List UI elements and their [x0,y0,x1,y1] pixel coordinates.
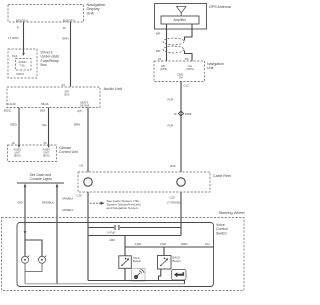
back bottom wire [159,269,161,281]
svg-text:SH: SH [179,76,183,80]
svg-text:RED/BLK: RED/BLK [42,201,54,205]
back drop [163,247,165,256]
inline connector ellipse 1 [163,38,184,45]
GPS antenna box [155,4,207,30]
svg-text:LT GRN: LT GRN [8,36,19,40]
svg-text:Button: Button [133,259,142,263]
GPS coax center wire [166,24,168,61]
svg-text:SB SNK: SB SNK [80,103,90,107]
svg-text:(BUS): (BUS) [43,154,50,157]
wire LT GRN/BLK from cable reel down [180,192,182,236]
lower branch [88,235,181,237]
svg-text:F12: F12 [12,54,18,58]
svg-text:Amplifier: Amplifier [174,18,187,22]
navigation unit box [154,61,205,82]
svg-text:Unit: Unit [207,66,213,70]
svg-text:PUR: PUR [168,124,174,128]
switch common bus [88,281,185,284]
svg-text:7.5A: 7.5A [20,64,25,67]
svg-text:YEL: YEL [42,123,48,127]
svg-text:C12: C12 [184,83,190,87]
svg-text:LT GRN/BLK: LT GRN/BLK [167,201,182,205]
svg-text:Audio Unit: Audio Unit [104,86,123,91]
svg-text:Switch: Switch [216,231,227,235]
svg-text:16: 16 [63,26,67,30]
wire BRN audio to cable reel [87,108,89,173]
inline connector D606 diamond [178,111,183,116]
svg-text:C20: C20 [170,196,176,200]
climate control unit box [8,145,57,162]
voice control switch box [17,223,214,287]
capacitor branch [88,227,114,229]
steering wheel outer dashed box [2,218,245,291]
svg-text:Unit: Unit [87,10,95,15]
svg-text:CLR-A6: CLR-A6 [7,102,17,106]
svg-text:GRN/BLK: GRN/BLK [62,208,74,212]
cable reel loop right [177,178,185,186]
lamp return wiring [25,263,42,284]
svg-text:GRN: GRN [62,36,69,40]
mic icon box [132,269,146,282]
amplifier box [161,16,199,24]
TALK button box [119,256,132,268]
cable reel loop left [84,178,92,186]
wire RED/BLK with up arrow [56,184,59,188]
inline connector ellipse 2 [163,46,184,53]
svg-text:B23(GRY): B23(GRY) [16,19,28,23]
talk drop [124,236,126,256]
illumination lamp 1 [22,256,29,263]
svg-text:B10: B10 [171,164,176,168]
bracket line [17,182,64,184]
svg-text:D6: D6 [80,164,84,168]
svg-text:25: 25 [44,141,48,145]
svg-text:Box: Box [41,63,47,67]
wire LT GRN from nav display to fuse box [23,22,25,53]
svg-text:B/R: B/R [156,49,160,53]
cable reel box [78,172,210,192]
illumination lamp 2 [39,256,46,263]
svg-text:C16: C16 [77,194,83,198]
svg-text:BRN: BRN [74,123,80,127]
svg-text:Button: Button [173,259,182,263]
svg-text:PUR: PUR [168,98,174,102]
BACK button box [158,256,172,270]
svg-text:10: 10 [174,112,178,116]
svg-text:2.2kΩ: 2.2kΩ [135,242,142,246]
svg-text:GPS Antenna: GPS Antenna [209,5,231,9]
svg-text:D606: D606 [185,112,192,116]
svg-text:P1: P1 [158,57,162,61]
return icon box [172,270,187,281]
svg-text:and Navigation System: and Navigation System [107,206,139,210]
svg-text:B20: B20 [40,108,45,112]
resistor bus [125,246,214,248]
wire RED audio to climate [18,108,20,145]
svg-text:0.47µF: 0.47µF [107,231,116,235]
svg-text:GRY: GRY [18,201,24,205]
svg-text:470Ω: 470Ω [160,242,166,246]
wire GRY with up arrow [24,184,27,188]
fuse F12 inner box [16,59,32,71]
svg-text:MICU: MICU [17,72,25,76]
svg-text:P3: P3 [185,57,189,61]
svg-text:(GPS): (GPS) [160,67,167,71]
svg-text:RED: RED [11,123,18,127]
svg-text:B(15): B(15) [4,108,11,112]
dashed see-arrow [90,202,101,204]
wire GRN/BLK from cable reel down [87,192,89,281]
antenna symbol [177,7,187,14]
svg-text:Console Lights: Console Lights [30,177,53,181]
svg-text:B23(GRY): B23(GRY) [63,19,75,23]
svg-text:Control Unit: Control Unit [59,150,78,154]
fuse/relay box [8,49,37,78]
svg-text:24: 24 [62,83,66,87]
talk bottom wire [124,268,126,280]
arrow on GRY lamp wire [24,231,27,234]
svg-text:BUS: BUS [65,93,70,96]
svg-text:(BUS): (BUS) [14,154,21,157]
GPS shield wire [185,24,193,61]
svg-text:SB-A6: SB-A6 [41,102,49,106]
svg-text:180Ω: 180Ω [181,242,187,246]
svg-text:Cable Reel: Cable Reel [213,174,231,178]
lamp branch tee [25,240,42,256]
wire PUR from navigation unit [180,82,182,173]
wire YEL audio to climate [48,108,50,145]
svg-text:(GPS): (GPS) [187,67,194,71]
svg-text:Steering Wheel: Steering Wheel [219,211,245,215]
audio unit box [7,87,100,108]
wire GRN from nav display to audio unit [70,22,72,87]
svg-text:4(1): 4(1) [205,242,210,246]
svg-text:A(7): A(7) [77,109,82,113]
svg-text:GRN/BLK: GRN/BLK [62,197,74,201]
navigation display unit box [8,5,84,23]
svg-text:19: 19 [12,141,16,145]
common return bus [25,283,185,285]
svg-text:B/R: B/R [156,32,160,36]
svg-text:HBO: HBO [110,238,116,242]
